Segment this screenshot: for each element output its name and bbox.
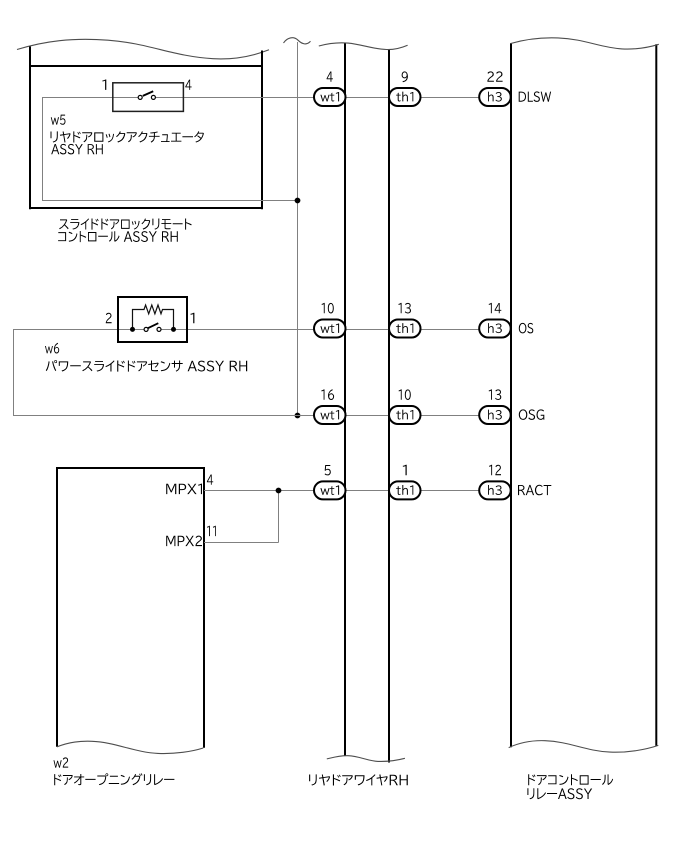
pin number 11 (w2 MPX2) [207,526,216,536]
pin number 4 (w2 MPX1) [207,475,213,485]
wire w6 pin2 [13,329,144,331]
wire MPX1 to wt1-5 [204,490,316,492]
label rear door lock actuator [51,131,204,142]
designator w6 [45,343,59,354]
wire OSG harness segment [346,415,389,417]
wire w5 pin4 to connector wt1-4 [155,97,316,99]
net label OSG [519,409,545,420]
pin number 12 (h3 RACT) [489,465,501,475]
pin number 10 (wt1 OS) [322,303,334,314]
wire OS th1 to h3 [421,329,482,331]
connector wt1 pin16 [314,406,346,424]
pin number 4 (w5 right) [185,80,191,90]
connector h3 pin14 [479,320,511,338]
wire MPX2 horizontal [204,542,279,544]
pin number 5 (wt1 RACT) [325,465,331,475]
wire DLSW harness segment [346,97,389,99]
harness bottom tear wave [327,756,405,762]
switch contacts in w6 [144,323,161,331]
wire OSG th1 to h3 [421,415,482,417]
wire DLSW th1 to h3 [421,97,482,99]
label rear door wire RH [309,774,408,785]
wire OS harness segment [346,329,389,331]
label slide door lock remote line1 [59,219,192,230]
wire w6 pin1 to wt1-10 [161,329,316,331]
label power slide door sensor [46,360,247,372]
connector h3 pin12 [479,481,511,499]
harness top tear wave [319,43,408,50]
pin number 13 (th1 OS) [398,303,411,314]
net label OS [519,323,534,334]
harness line 1 (rear door wire RH) [344,43,346,755]
connector th1 pin9 [389,88,421,106]
switch box in w5 [113,83,184,112]
connector h3 pin13 [479,406,511,424]
component box w6 [117,296,188,343]
component box w5 outline with torn top [17,39,269,209]
pin name MPX2 [166,536,202,547]
connector th1 pin13 [389,320,421,338]
label door control line2 [527,788,592,799]
pin number 22 (h3 DLSW) [487,71,502,81]
designator w5 [51,115,66,125]
label ASSY RH (w5) [51,144,103,155]
connector wt1 pin5 [314,481,346,499]
wire MPX2 riser [278,491,280,543]
wire OSG left segment [13,415,316,417]
pin number 16 (wt1 OSG) [321,389,334,400]
harness line 2 (rear door wire RH) [388,50,390,763]
connector wt1 pin4 [314,88,346,106]
wire RACT harness segment [346,490,389,492]
pin number 10 (th1 OSG) [399,389,411,400]
label door opening relay [54,773,174,785]
pin number 1 (w6 right) [190,313,194,323]
junction w5 return / vertical bus [295,198,301,204]
label door control line1 [528,774,613,785]
component box w2 with torn bottom [56,467,205,754]
pin number 4 (wt1 DLSW) [327,72,333,82]
pin number 1 (w5 left) [102,80,106,90]
resistor in w6 [133,305,174,330]
net label RACT [518,485,551,496]
junction w6 resistor right [171,327,176,332]
wire w6 pin2 down to OSG [13,330,15,416]
connector th1 pin1 [389,481,421,499]
wire vertical bus with break squiggle [284,38,311,416]
pin number 2 (w6 left) [106,313,112,323]
junction MPX1/MPX2 [276,488,282,494]
junction w6 resistor left [130,327,135,332]
wire w5 pin1 internal loop (left/bottom) [42,97,298,201]
label slide door lock remote line2 [58,231,178,242]
pin number 1 (th1 RACT) [403,465,407,475]
switch SW1 contacts in w5 [138,91,155,99]
connector h3 pin22 [479,88,511,106]
component box: door control relay assy (right) with torn top/bottom [509,38,659,752]
pin number 13 (h3 OSG) [489,389,502,400]
connector th1 pin10 [389,406,421,424]
connector wt1 pin10 [314,320,346,338]
wire RACT th1 to h3 [421,490,482,492]
net label DLSW [519,91,551,102]
pin name MPX1 [166,484,202,495]
designator w2 [54,757,69,767]
pin number 14 (h3 OS) [489,303,502,313]
junction vertical bus / OSG wire [295,413,301,419]
wire w5 pin1 to switch [43,97,139,99]
pin number 9 (th1 DLSW) [402,71,408,82]
